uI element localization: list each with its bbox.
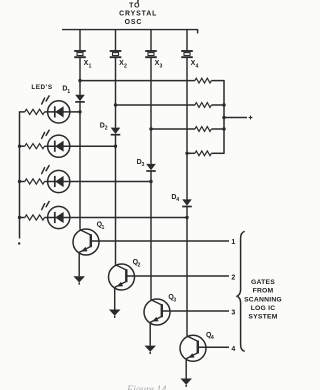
wire column X4 row to diode D4 (186, 153, 188, 199)
diode D3 (146, 164, 156, 182)
label gate 3 (231, 310, 235, 317)
resistor R1 (195, 78, 212, 83)
svg-text:4: 4 (211, 335, 214, 341)
diode D1 (75, 95, 85, 112)
svg-text:OSC: OSC (125, 19, 143, 26)
resistor R3 (195, 127, 212, 132)
LED CR1 light rays (42, 96, 49, 104)
resistor RL1 (25, 109, 45, 114)
label gate 1 (231, 239, 235, 246)
wire resistor R3 to rail (211, 128, 224, 130)
wire bus stub column X4 (186, 30, 188, 52)
wire bus to crystal osc (62, 29, 198, 33)
crystal X4 (181, 51, 193, 57)
svg-text:Figure 14: Figure 14 (126, 384, 166, 390)
label Q4 (206, 332, 214, 341)
diode D2 (111, 128, 121, 147)
resistor RL2 (25, 144, 45, 149)
wire LED row 3 left (20, 181, 25, 183)
label figure caption (126, 384, 166, 390)
label gate 2 (231, 274, 235, 281)
wire column X1 row to diode D1 (79, 81, 81, 95)
label Q2 (133, 259, 141, 268)
junction left rail row 3 (18, 180, 21, 183)
junction row 3 at column X3 (149, 127, 152, 130)
wire gate line 4 from Q4 base (198, 346, 229, 348)
svg-text:2: 2 (124, 63, 127, 69)
wire right rail (223, 80, 225, 154)
label D1 (62, 86, 70, 95)
LED CR4 (48, 206, 70, 228)
label Q3 (168, 294, 176, 303)
wire resistor R4 to rail (211, 152, 224, 154)
svg-text:3: 3 (142, 162, 145, 168)
wire LED row 4 to column (45, 217, 188, 219)
wire column X4 crystal to row junction (186, 58, 188, 153)
wire column X2 crystal to row junction (115, 58, 117, 105)
wire LED row 4 left (20, 217, 25, 219)
junction LED row 3 at column X3 (149, 180, 152, 183)
brace gates (237, 231, 245, 351)
wire LED row 1 left (20, 111, 25, 113)
junction LED row 1 at column X1 (78, 110, 81, 113)
crystal X3 (145, 51, 157, 57)
wire output (224, 117, 247, 119)
node output + terminal (249, 116, 253, 120)
svg-text:2: 2 (231, 274, 235, 281)
wire LED row 2 left (20, 145, 25, 147)
junction row 2 at column X2 (114, 103, 117, 106)
resistor R2 (195, 103, 212, 108)
label gate 4 (231, 346, 235, 353)
wire column X4 LED row to Q4 collector (186, 218, 188, 337)
svg-text:4: 4 (231, 346, 235, 353)
transistor Q4 (180, 335, 206, 361)
wire row 2 to resistor (116, 104, 195, 106)
svg-text:4: 4 (176, 197, 179, 203)
svg-text:4: 4 (196, 63, 199, 69)
junction left rail row 4 (18, 216, 21, 219)
label Q1 (97, 222, 105, 231)
wire row 4 to resistor (187, 152, 195, 154)
svg-text:3: 3 (173, 297, 176, 303)
LED CR2 (48, 135, 70, 157)
LED CR4 light rays (42, 202, 49, 210)
svg-text:3: 3 (231, 310, 235, 317)
ground below Q3 (144, 346, 156, 354)
label LED'S (31, 84, 53, 91)
wire row 1 to resistor (80, 80, 195, 82)
ground below Q4 (180, 379, 192, 387)
node TO CRYSTAL OSC (text) (119, 2, 157, 25)
svg-text:SYSTEM: SYSTEM (248, 314, 277, 321)
label X4 (191, 60, 199, 69)
resistor RL3 (25, 179, 45, 184)
svg-text:1: 1 (67, 89, 70, 95)
label X2 (119, 60, 127, 69)
wire LED row 2 to column (45, 145, 116, 147)
junction rail output (222, 116, 225, 119)
wire Q3 emitter to ground (149, 322, 151, 345)
wire bus stub column X2 (115, 30, 117, 52)
svg-text:GATES: GATES (251, 279, 275, 286)
ground below Q1 (73, 276, 85, 284)
crystal X2 (110, 51, 122, 57)
svg-text:2: 2 (138, 262, 141, 268)
wire column X3 LED row to Q3 collector (150, 182, 152, 300)
wire bus stub column X3 (150, 30, 152, 52)
junction LED row 4 at column X4 (185, 216, 188, 219)
wire Q4 emitter to ground (185, 359, 187, 379)
label X3 (155, 60, 163, 69)
svg-text:1: 1 (231, 239, 235, 246)
LED CR2 light rays (42, 130, 49, 138)
wire column X3 row to diode D3 (150, 129, 152, 164)
svg-text:SCANNING: SCANNING (244, 296, 282, 303)
junction rail row 3 (222, 127, 225, 130)
wire LED row 3 to column (45, 181, 152, 183)
svg-text:CRYSTAL: CRYSTAL (119, 11, 157, 18)
wire gate line 1 from Q1 base (91, 240, 229, 242)
wire column X1 LED row to Q1 collector (79, 112, 81, 230)
svg-text:LED’S: LED’S (31, 84, 53, 91)
LED CR1 (48, 101, 70, 123)
junction row 1 at column X1 (78, 79, 81, 82)
ground below Q2 (109, 310, 121, 318)
svg-text:1: 1 (102, 225, 105, 231)
resistor R4 (195, 151, 212, 156)
label D2 (100, 122, 108, 131)
label GATES FROM SCANNING LOGIC SYSTEM (244, 279, 282, 320)
wire gate line 3 from Q3 base (162, 310, 229, 312)
svg-text:2: 2 (105, 126, 108, 132)
svg-text:LOG IC: LOG IC (251, 305, 276, 312)
node dot below left rail (18, 242, 20, 244)
wire column X3 crystal to row junction (150, 58, 152, 129)
wire Q2 emitter to ground (114, 287, 116, 309)
wire stub to crystal osc (top tick) (137, 0, 139, 3)
junction rail row 2 (222, 103, 225, 106)
wire left rail (19, 111, 21, 238)
junction LED row 2 at column X2 (114, 145, 117, 148)
svg-text:TO: TO (129, 2, 140, 9)
transistor Q1 (73, 229, 99, 255)
diode D4 (182, 199, 192, 217)
label D4 (171, 194, 179, 203)
wire column X1 crystal to row junction (79, 58, 81, 81)
LED CR3 (48, 170, 70, 192)
LED CR3 light rays (42, 166, 49, 174)
wire bus stub column X1 (79, 30, 81, 52)
wire resistor R1 to rail (211, 80, 224, 82)
transistor Q2 (109, 264, 135, 290)
wire column X2 LED row to Q2 collector (115, 146, 117, 265)
wire Q1 emitter to ground (78, 252, 80, 276)
junction left rail row 2 (18, 145, 21, 148)
crystal X1 (74, 51, 86, 57)
resistor RL4 (25, 215, 45, 220)
wire column X2 row to diode D2 (115, 105, 117, 128)
label X1 (84, 60, 92, 69)
wire resistor R2 to rail (211, 104, 224, 106)
wire LED row 1 to column (45, 111, 81, 113)
svg-text:FROM: FROM (253, 288, 274, 295)
transistor Q3 (144, 299, 170, 325)
wire row 3 to resistor (151, 128, 195, 130)
label D3 (137, 159, 145, 168)
svg-text:3: 3 (160, 63, 163, 69)
wire gate line 2 from Q2 base (126, 275, 229, 277)
svg-text:1: 1 (89, 63, 92, 69)
junction row 4 at column X4 (185, 152, 188, 155)
